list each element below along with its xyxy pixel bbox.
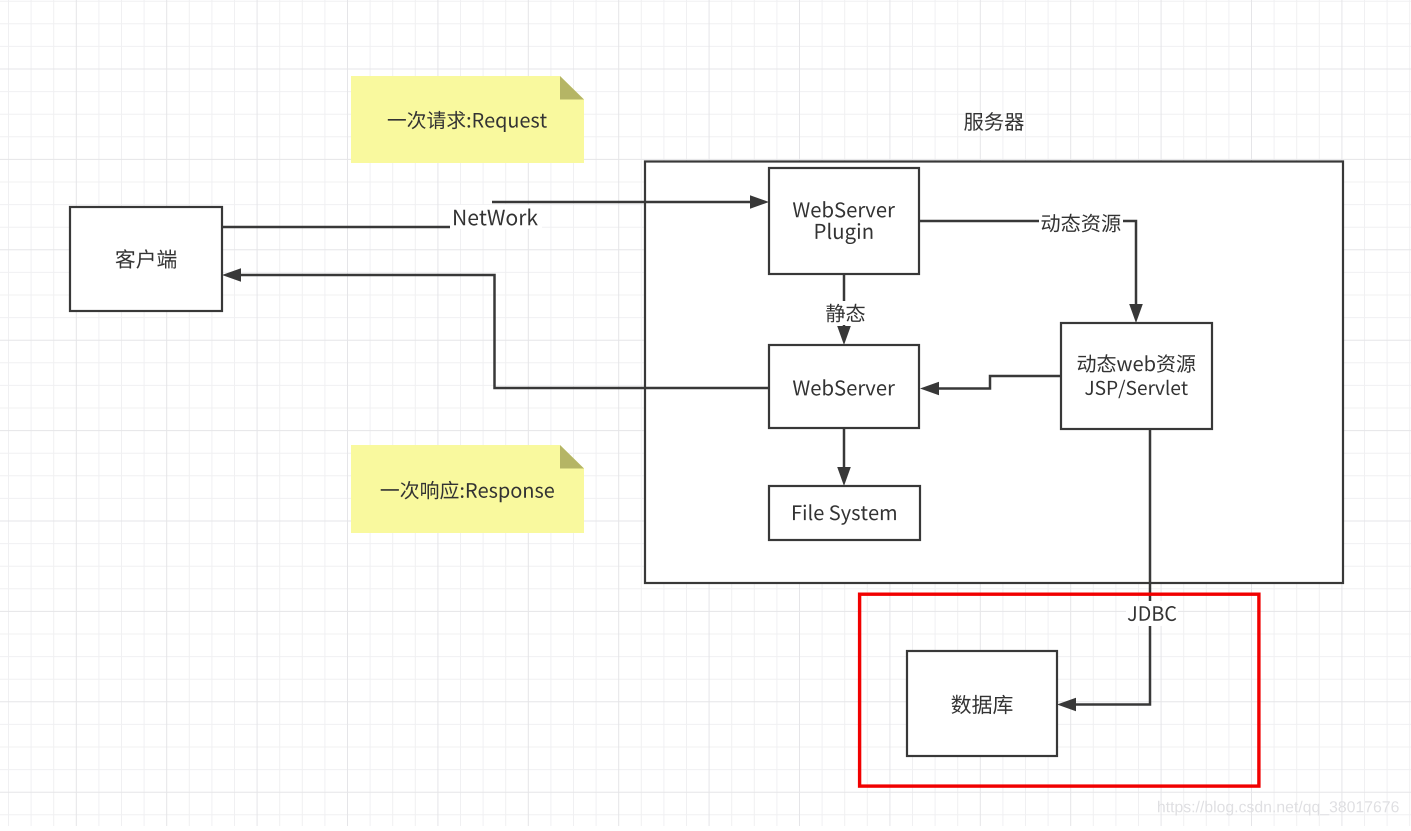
wire response (WebServer to client) with arrow	[222, 268, 769, 388]
File System box	[769, 486, 920, 540]
server container box 服务器	[645, 162, 1343, 584]
wire request segment A (client to NetWork label)	[222, 226, 452, 229]
label NetWork on request wire	[450, 205, 542, 229]
label JDBC on JDBC wire	[1126, 601, 1178, 626]
red highlight rectangle around database	[860, 594, 1259, 786]
watermark text	[1158, 801, 1399, 816]
database box 数据库	[907, 651, 1057, 756]
wire JSP/Servlet to WebServer with arrow	[920, 376, 1061, 395]
wire static (Plugin down to WebServer) with arrow	[837, 274, 851, 345]
WebServer box	[769, 345, 919, 428]
label 静态 on static wire	[822, 301, 868, 325]
dynamic web resource box 动态web资源 JSP/Servlet	[1061, 323, 1212, 429]
wire WebServer down to File System with arrow	[837, 428, 851, 486]
sticky note 一次请求:Request	[351, 76, 584, 163]
WebServer Plugin box	[769, 168, 919, 274]
wire dynamic resource (Plugin to JSP/Servlet) with arrow	[919, 221, 1143, 323]
wire JDBC (JSP/Servlet to database) with arrow	[1057, 429, 1150, 711]
client box 客户端	[70, 207, 222, 311]
sticky note 一次响应:Response	[351, 445, 584, 533]
label 服务器	[964, 112, 1024, 131]
wire request segment B with arrow into WebServer Plugin	[492, 195, 769, 209]
label 动态资源 on dynamic resource wire	[1039, 211, 1123, 235]
